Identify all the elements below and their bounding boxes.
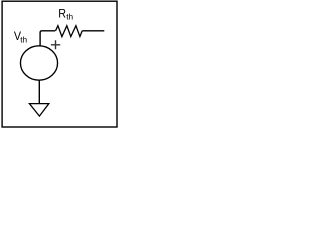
resistor Rth zigzag [56,26,83,37]
wire from Vth top to resistor Rth [40,31,55,47]
wire from Rth to right terminal [82,30,104,32]
voltage source Vth circle [20,46,57,80]
svg-text:th: th [20,34,27,44]
plus polarity mark of Vth [51,40,60,49]
wire from Vth bottom to ground [38,80,40,103]
svg-text:th: th [66,11,73,21]
ground [29,104,48,117]
svg-text:R: R [58,8,66,21]
